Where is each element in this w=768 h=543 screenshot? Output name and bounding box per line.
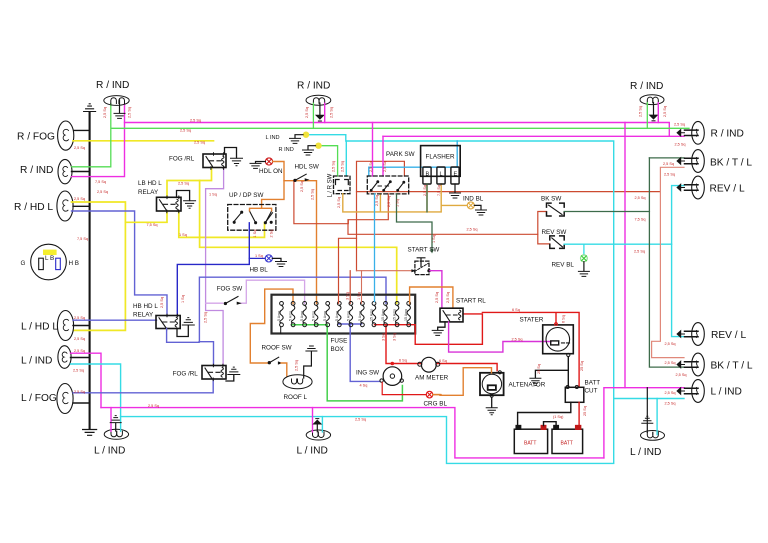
svg-text:2,5 Sq: 2,5 Sq [639,106,643,117]
cyan branch to L/IND right connector [614,398,684,400]
svg-text:R / IND: R / IND [297,81,330,92]
svg-text:25 Sq: 25 Sq [583,406,587,416]
svg-text:R IND: R IND [279,147,294,153]
svg-text:2,5 Sq: 2,5 Sq [341,161,345,172]
svg-text:1 Sq: 1 Sq [179,233,187,237]
svg-text:2,5 Sq: 2,5 Sq [330,107,334,118]
REV SW cyan to right [564,243,671,245]
svg-text:6 Sq: 6 Sq [562,315,566,323]
svg-text:FUSE: FUSE [331,338,348,345]
long magenta rail y=122.5 [125,123,670,137]
svg-text:2,5 Sq: 2,5 Sq [467,228,478,232]
svg-text:2,5 Sq: 2,5 Sq [73,369,84,373]
svg-text:2,5 Sq: 2,5 Sq [665,361,676,365]
magenta bottom rail [101,408,604,458]
L/R SW goldenrod output [343,184,441,212]
REV SW [550,236,564,249]
ground symbol bottom of bus [83,430,97,436]
svg-text:STATER: STATER [520,317,544,324]
CRG BL orange to ALT [433,368,492,396]
START RL ground [432,322,445,336]
cyan drop to L/R SW [345,141,347,176]
wire R/HD L yellow [72,202,126,330]
wire R/FOG yellow long to FOG/RL [73,140,214,142]
wire L/IND black to bus [71,357,90,359]
red jog to fuse6 [339,238,357,303]
svg-text:2,5 Sq: 2,5 Sq [665,402,676,406]
svg-text:7,5 Sq: 7,5 Sq [437,185,441,196]
svg-text:FLASHER: FLASHER [426,154,455,161]
svg-text:2,5 Sq: 2,5 Sq [512,338,523,342]
svg-text:BATT: BATT [585,380,601,387]
ground bus [89,112,91,429]
dark green vertical to BK/T/L connectors [649,158,684,367]
UP/DP internals [233,211,272,224]
svg-text:BATT: BATT [524,441,536,447]
salmon START SW feed [357,270,413,272]
lavender FOG SW left branch [206,302,223,304]
FOG/RL lower ground [226,367,240,381]
svg-text:BOX: BOX [331,346,345,353]
svg-text:2,5 Sq: 2,5 Sq [423,185,427,196]
right bulb green lead [646,103,648,129]
FOG/RL ground [225,148,243,166]
svg-text:R / FOG: R / FOG [17,132,55,143]
svg-text:2,5 Sq: 2,5 Sq [663,162,674,166]
svg-text:REV / L: REV / L [711,330,746,341]
svg-text:2,5 Sq: 2,5 Sq [178,182,189,186]
svg-text:L B: L B [45,255,54,262]
connector R/IND left [58,159,72,183]
connector R/FOG [58,121,74,150]
svg-text:L / IND: L / IND [711,387,742,398]
svg-text:2,5 Sq: 2,5 Sq [103,107,107,118]
HDL SW salmon drop [294,181,388,224]
fuse blue bottom rail [338,324,380,381]
svg-text:BK SW: BK SW [541,196,561,203]
wire L/FOG blue long [73,379,213,393]
svg-text:CUT: CUT [585,388,598,395]
svg-text:BK / T / L: BK / T / L [710,158,752,169]
LB HD L relay [157,196,182,213]
svg-text:2,5 Sq: 2,5 Sq [295,360,299,371]
svg-text:LB HD L: LB HD L [138,180,162,187]
bottom-right bulb L/IND [641,431,665,441]
STATER motor [543,323,574,354]
ground arrow of top-center bulb [316,103,324,121]
wire L/HD L black to bus [73,325,90,327]
long blue rail y=277.2 to fuse10 [199,277,386,342]
svg-text:15 Amp: 15 Amp [404,309,408,321]
svg-text:3 Sq: 3 Sq [346,292,350,300]
goldenrod to IND BL [441,204,467,206]
svg-text:2,5 Sq: 2,5 Sq [375,195,379,206]
UP/DP SW box [228,205,276,231]
bottom-left bulb ground [110,416,121,431]
LB relay bottom yellow to x=125 [125,211,167,222]
svg-text:2,5 Sq: 2,5 Sq [74,316,85,320]
START SW magenta to START RL [430,271,442,309]
svg-text:2,5 Sq: 2,5 Sq [74,197,85,201]
svg-text:2,5 Sq: 2,5 Sq [74,337,85,341]
sky jog to PARK SW [369,141,457,176]
svg-text:L / IND: L / IND [94,446,125,457]
top bulb R/IND left [104,96,129,106]
AM METER [418,357,440,372]
svg-text:5 Amp: 5 Amp [323,311,327,321]
wire R/IND magenta lead [72,104,125,177]
HB BL ground [272,258,286,266]
L/R SW box [334,176,351,194]
svg-text:2,5 Sq: 2,5 Sq [676,373,687,377]
svg-text:2,5 Sq: 2,5 Sq [665,342,676,346]
red to REV SW y=234.3 [348,220,550,244]
connector REV/L lower [677,323,704,346]
FOG SW switch [224,297,241,305]
START RL magenta to STATER [449,322,551,352]
svg-text:FOG /RL: FOG /RL [173,371,199,378]
svg-text:2,5 Sq: 2,5 Sq [148,404,159,408]
fuse7 red feed from salmon line [349,271,351,304]
red BK SW stub [538,212,547,235]
magenta long vertical x=625 [624,123,626,388]
svg-text:(1 Sq): (1 Sq) [553,415,564,419]
svg-text:FOG SW: FOG SW [217,286,243,293]
ground of top-left bulb [114,100,125,118]
BK SW dark green to right [564,211,649,213]
right bulb magenta lead [657,103,659,123]
svg-text:REV / L: REV / L [710,184,745,195]
connector R/IND right [677,121,704,144]
svg-text:HDL SW: HDL SW [295,164,319,171]
svg-text:2,5 Sq: 2,5 Sq [97,190,108,194]
svg-text:2,5 Sq: 2,5 Sq [332,161,336,172]
HB relay bottom blue to lower FOG/RL [167,329,200,343]
svg-text:1 Sq: 1 Sq [396,199,400,207]
svg-text:2,5 Sq: 2,5 Sq [305,107,309,118]
svg-text:2,5 Sq: 2,5 Sq [446,292,450,303]
svg-text:5 Amp: 5 Amp [358,311,362,321]
svg-text:R / IND: R / IND [96,80,129,91]
FLASHER B wire [426,184,428,212]
wire L/HD L blue to HB relay [73,319,157,321]
svg-text:15 Amp: 15 Amp [381,309,385,321]
UP/DP blue output [177,223,249,316]
wire R/HD L blue [72,211,168,316]
HB relay ground [177,318,194,337]
HDL ON orange wire to UP/DP common [262,162,284,209]
START SW [415,261,429,275]
wire R/IND black to bus [72,171,90,173]
HB BL lamp [265,255,272,262]
svg-text:B: B [426,172,430,178]
svg-text:R / IND: R / IND [630,81,663,92]
svg-text:3 Sq: 3 Sq [393,333,397,341]
svg-text:PARK SW: PARK SW [386,151,415,158]
svg-text:ING SW: ING SW [356,370,379,377]
PARK SW dark green output [397,194,433,251]
magenta rail 2 y=136.3 [383,135,684,137]
svg-text:ROOF L: ROOF L [284,394,308,401]
CRG BL lamp [426,391,433,398]
svg-text:5 Amp: 5 Amp [277,311,281,321]
svg-text:2,5 Sq: 2,5 Sq [663,106,667,117]
svg-text:L / R SW: L / R SW [328,173,334,197]
svg-text:2 Sq: 2 Sq [270,230,274,238]
ING SW [380,367,404,386]
ING SW red to CRG BL [382,382,426,394]
fuse 1 bottom stub [280,327,282,334]
svg-text:2,5 Sq: 2,5 Sq [355,418,366,422]
svg-text:2,5 Sq: 2,5 Sq [635,196,646,200]
svg-text:R / HD L: R / HD L [14,202,53,213]
svg-text:5 Amp: 5 Amp [335,311,339,321]
svg-text:AM METER: AM METER [415,375,449,382]
svg-text:2,5 Sq: 2,5 Sq [128,107,132,118]
ground arrow of top-right bulb [650,103,658,121]
orange flasher-fuse12 to START RL [410,287,453,308]
svg-text:2,5 Sq: 2,5 Sq [674,123,685,127]
wire L/IND magenta [71,353,102,407]
svg-text:START RL: START RL [456,298,486,305]
svg-text:1 Sq: 1 Sq [181,295,185,303]
svg-text:3 Sq: 3 Sq [382,333,386,341]
IND BL lamp [467,202,474,209]
svg-text:2,5 Sq: 2,5 Sq [204,312,208,323]
svg-text:ROOF SW: ROOF SW [262,345,292,352]
svg-text:START SW: START SW [408,247,440,254]
wire R/IND green lead [72,104,111,167]
ROOF L ground [304,346,317,378]
svg-text:L / FOG: L / FOG [21,393,57,404]
red AM meter line to ALT [437,364,498,371]
connector L/IND right [677,380,704,403]
ROOF SW orange from fuse2 [250,289,293,363]
battery jumper [544,422,557,426]
wire R/FOG to bus (black) [74,129,90,131]
top bulb R/IND right [640,95,664,105]
svg-text:FOG /RL: FOG /RL [169,156,195,163]
svg-text:6 Sq: 6 Sq [399,359,407,363]
svg-text:1 Sq: 1 Sq [255,254,263,258]
svg-text:CRG BL: CRG BL [424,401,448,408]
fuse box body [272,295,416,334]
HDL SW rail orange [284,181,317,304]
HDL ON ground [250,162,265,169]
bottom-center bulb L/IND [306,430,330,440]
svg-text:RELAY: RELAY [133,312,154,319]
svg-text:2,5 Sq: 2,5 Sq [74,146,85,150]
svg-text:5 Amp: 5 Amp [300,311,304,321]
svg-text:2,5 Sq: 2,5 Sq [190,119,201,123]
svg-text:2,5 Sq: 2,5 Sq [369,161,373,172]
svg-text:4 Sq: 4 Sq [360,384,368,388]
connector R/HD L [57,191,73,221]
svg-text:H B: H B [69,260,80,267]
svg-text:7,5 Sq: 7,5 Sq [635,218,646,222]
BK SW [547,203,565,216]
svg-text:BATT: BATT [561,441,573,447]
wire L/FOG black to bus [73,402,90,404]
wire R/HD L black to bus [73,205,90,207]
ROOF SW orange to ROOF L [281,363,287,376]
fuse red bottom rail [375,314,483,344]
svg-text:2,5 Sq: 2,5 Sq [74,390,85,394]
PARK SW internals [370,181,404,191]
REV BL lamp [581,255,588,262]
STATER red top [482,312,579,387]
svg-text:2,5 Sq: 2,5 Sq [194,141,205,145]
battery 1 [514,426,582,454]
HB HD L relay [156,314,180,330]
svg-text:1 Sq: 1 Sq [209,193,217,197]
svg-text:2,5 Sq: 2,5 Sq [180,129,191,133]
REV BL ground [578,262,589,277]
svg-text:L: L [440,172,443,178]
svg-text:6 Sq: 6 Sq [512,308,520,312]
ground symbol top of bus [84,104,96,112]
FOG/RL lower relay [202,364,226,380]
PARK SW sky output to fuse9 [374,194,376,302]
ALTENATOR ground [486,397,497,415]
svg-text:L / IND: L / IND [21,356,52,367]
salmon drop to fuse8 [361,271,363,304]
FLASHER box [421,146,461,177]
svg-text:1 Sq: 1 Sq [253,230,257,238]
svg-text:2,5 Sq: 2,5 Sq [665,391,676,395]
ALTENATOR [480,371,504,398]
magenta to L/IND right connector [604,388,684,458]
yellow junction to x=199.6 down long yellow rail [200,181,397,304]
svg-text:2,5 Sq: 2,5 Sq [311,189,315,200]
FOG/RL violet coil wire [206,168,224,366]
svg-text:ALTENATOR: ALTENATOR [509,382,546,389]
connector BK/T/L upper [677,150,704,173]
svg-text:2,5 Sq: 2,5 Sq [383,161,387,172]
svg-text:7,5 Sq: 7,5 Sq [95,180,106,184]
HDL SW switch [294,174,309,181]
IND BL ground [474,205,486,215]
cyan vertical to REV/L connectors [672,186,684,337]
LB relay bottom-right yellow to UP/DP [179,211,265,237]
svg-text:7,5 Sq: 7,5 Sq [77,237,88,241]
salmon vertical to BK/T/L connectors [652,167,684,357]
wire gauge labels [73,119,686,422]
FOG/RL upper relay yellow bottom [167,168,212,198]
HDL ON lamp [265,158,272,165]
connector L/HD L [57,311,73,341]
svg-text:15 Amp: 15 Amp [370,309,374,321]
R IND ground [303,146,316,155]
svg-text:15 Amp: 15 Amp [393,309,397,321]
svg-text:HB HD L: HB HD L [133,303,158,310]
svg-text:REV BL: REV BL [552,262,575,269]
connector L/IND left [58,346,71,369]
cyan net from L IND dot [121,135,614,464]
svg-text:L / HD L: L / HD L [21,322,58,333]
svg-text:2,5 Sq: 2,5 Sq [160,297,164,308]
START RL relay [440,308,463,322]
svg-text:IND BL: IND BL [463,196,484,203]
connector REV/L upper [677,176,704,199]
connector BK/T/L lower [677,353,704,376]
svg-text:2,5 Sq: 2,5 Sq [664,173,675,177]
svg-text:6 Sq: 6 Sq [439,359,447,363]
svg-text:E: E [454,172,458,178]
svg-text:UP / DP SW: UP / DP SW [229,192,263,199]
top bulb R/IND center [306,95,331,105]
svg-text:2,5 Sq: 2,5 Sq [74,349,85,353]
connector L/FOG [57,384,73,414]
FLASHER E ground [450,184,461,198]
svg-text:2,5 Sq: 2,5 Sq [337,197,341,208]
BATT CUT box [565,386,584,403]
PARK SW box [367,176,408,194]
svg-text:R / IND: R / IND [20,165,53,176]
red long to BK/T/L net y=191.6 [357,191,661,193]
svg-text:HDL ON: HDL ON [259,168,283,175]
svg-text:25 Sq: 25 Sq [537,364,541,374]
svg-text:REV SW: REV SW [542,229,567,236]
STATER ground tap [530,370,568,385]
lavender FOG SW right to fuse3 [241,280,305,303]
fuse10 red to AM meter [386,325,422,364]
svg-text:2,5 Sq: 2,5 Sq [387,196,391,207]
svg-text:1 Sq: 1 Sq [357,292,361,300]
L IND junction dot [303,132,309,138]
headlamp beam gauge [31,244,67,280]
svg-text:L / IND: L / IND [297,446,328,457]
svg-text:25 Sq: 25 Sq [580,361,584,371]
svg-text:L IND: L IND [266,135,280,141]
center bulb green lead [312,103,314,128]
ROOF L bulb [283,375,312,389]
UP/DP orange V-feed [250,208,272,211]
REV BL branch [583,244,585,255]
HB BL lamp branch [249,257,265,259]
svg-text:7,5 Sq: 7,5 Sq [147,223,158,227]
svg-text:1 Sq: 1 Sq [432,235,436,243]
LB relay ground [177,191,196,209]
BATT CUT red to battery2 [578,402,580,426]
svg-text:R / IND: R / IND [711,129,744,140]
svg-text:5 Amp: 5 Amp [289,311,293,321]
wire L/IND cyan [71,364,121,417]
svg-text:2,5 Sq: 2,5 Sq [435,292,439,303]
red web: vertical x=356.5 [357,161,405,270]
bottom-left bulb leads [110,408,112,432]
svg-text:HB BL: HB BL [250,267,269,274]
svg-text:G: G [21,260,26,267]
center bulb magenta lead [324,103,326,122]
12 fuses [280,302,411,327]
svg-text:2,5 Sq: 2,5 Sq [675,143,686,147]
STATER bottom pin to BATT CUT [567,353,570,387]
svg-text:2,5 Sq: 2,5 Sq [300,181,304,192]
BATT CUT black to battery1 [518,402,571,426]
FOG/RL upper relay [203,153,226,170]
blue into lower FOG/RL [199,342,213,366]
bottom-left bulb L/IND [104,429,128,439]
svg-text:RELAY: RELAY [138,189,159,196]
magenta drops to PARK SW [372,123,374,177]
svg-text:2,5 Sq: 2,5 Sq [634,250,645,254]
svg-text:5 Amp: 5 Amp [346,311,350,321]
green from R IND dot to L/R SW [319,146,338,176]
ROOF SW switch [268,357,282,364]
svg-text:BK / T / L: BK / T / L [711,361,753,372]
R IND junction dot [315,143,321,149]
